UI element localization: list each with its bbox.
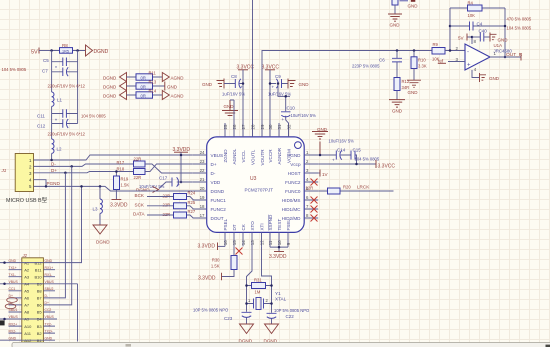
wire pin13 xtal left column	[247, 242, 253, 312]
svg-text:GND: GND	[202, 82, 213, 87]
svg-text:R10: R10	[418, 58, 426, 63]
pin names top U3	[223, 147, 292, 165]
wire vertical D+ to J2 row6	[43, 173, 65, 298]
wire VOUTR vertical + audio line to op-amp	[262, 51, 432, 138]
svg-text:C8: C8	[231, 74, 237, 79]
pin names bottom U3	[223, 214, 291, 231]
ground DGND port row2	[103, 82, 127, 91]
svg-text:D-: D-	[45, 294, 49, 298]
wire crossover D+/D-	[145, 164, 193, 173]
ground GND earth under R10	[407, 80, 421, 95]
svg-text:DGND: DGND	[94, 49, 109, 55]
op-amp U1A JRC4580	[456, 39, 513, 72]
ground GND antenna (C40)	[490, 33, 508, 43]
power 5V port op-amp	[458, 34, 473, 45]
resistor R11 (0R)	[136, 71, 157, 81]
svg-text:10: 10	[277, 240, 282, 245]
svg-text:L3: L3	[93, 207, 99, 212]
wire J1 pin1 VBUS to pin24	[34, 155, 193, 160]
capacitor C15	[351, 148, 361, 160]
svg-text:12: 12	[260, 240, 265, 245]
svg-text:+: +	[282, 117, 285, 122]
svg-text:XTAL: XTAL	[275, 297, 287, 302]
pin numbers top U3	[223, 124, 291, 129]
ground DGND label at C17	[136, 187, 159, 193]
svg-text:R14: R14	[149, 89, 157, 94]
capacitor C5	[43, 58, 78, 67]
svg-text:R20: R20	[343, 185, 351, 190]
svg-text:HOST: HOST	[288, 171, 301, 176]
inductor L1	[52, 92, 63, 108]
node DATA row	[133, 212, 193, 219]
capacitor C9 (1uF polarized)	[270, 74, 288, 90]
svg-text:RX2-: RX2-	[9, 329, 17, 333]
wire left rail mid	[51, 108, 53, 139]
wire row2	[127, 85, 165, 87]
svg-text:470 5% 0805: 470 5% 0805	[507, 17, 532, 22]
resistor R14 (0R)	[136, 89, 157, 99]
svg-text:SSPND: SSPND	[268, 214, 273, 231]
svg-text:D+: D+	[45, 301, 49, 305]
svg-text:C40: C40	[479, 29, 488, 34]
svg-text:1uF/16V 5%: 1uF/16V 5%	[222, 92, 245, 97]
svg-text:R18: R18	[117, 167, 125, 172]
svg-text:RX2+: RX2+	[9, 322, 18, 326]
svg-text:31: 31	[277, 124, 282, 129]
no-connect X pin14	[236, 248, 243, 255]
svg-text:10uF/16V 5%: 10uF/16V 5%	[291, 113, 317, 118]
svg-text:GND: GND	[408, 90, 419, 95]
svg-text:B8: B8	[37, 289, 43, 294]
resistor R25	[174, 200, 196, 209]
wire J2 left stubs	[0, 263, 57, 341]
svg-text:C15: C15	[353, 148, 362, 153]
svg-text:CK: CK	[241, 223, 246, 230]
svg-text:30: 30	[268, 124, 273, 129]
pin names right U3	[282, 153, 302, 221]
svg-text:32: 32	[286, 124, 291, 129]
svg-text:HID2/MD: HID2/MD	[282, 216, 302, 221]
svg-text:LRCK: LRCK	[357, 185, 370, 190]
svg-text:OUT_R: OUT_R	[506, 52, 523, 58]
svg-text:-: -	[467, 50, 469, 56]
wire row3	[127, 94, 163, 96]
svg-text:+: +	[332, 158, 335, 163]
svg-text:GND: GND	[224, 104, 235, 109]
svg-text:TX2+: TX2+	[45, 329, 53, 333]
resistor R10	[411, 49, 427, 80]
power 3.3VCC port 2	[262, 65, 280, 138]
power 3.3VDD port (VBUS rail)	[173, 147, 191, 183]
node ellipse marker row7	[5, 304, 16, 309]
svg-text:SCK: SCK	[135, 202, 145, 207]
svg-text:D-: D-	[211, 171, 216, 176]
node SCK row	[135, 202, 194, 209]
svg-text:18: 18	[200, 204, 205, 209]
svg-text:3.3K: 3.3K	[418, 64, 427, 69]
svg-text:10K: 10K	[468, 13, 476, 18]
svg-text:D+: D+	[211, 162, 217, 167]
svg-text:SBU2: SBU2	[45, 287, 54, 291]
svg-text:HID0/MS: HID0/MS	[282, 198, 301, 203]
svg-text:5V: 5V	[458, 36, 465, 41]
svg-text:R27: R27	[188, 209, 196, 214]
resistor R30	[211, 246, 237, 276]
svg-text:GND: GND	[489, 76, 500, 81]
wire VCOM C10 link	[278, 84, 290, 138]
no-connect X pin6	[311, 197, 318, 204]
svg-text:C6: C6	[379, 58, 385, 63]
power 3.3VDD port (R19)	[110, 200, 128, 209]
svg-text:B10: B10	[34, 274, 42, 279]
svg-text:VBUS: VBUS	[45, 280, 55, 284]
ground DGND (top-left, right-pointing)	[86, 45, 109, 56]
svg-text:25: 25	[223, 124, 228, 129]
svg-text:GND: GND	[9, 259, 17, 263]
capacitor C10	[281, 106, 295, 123]
svg-text:C10: C10	[287, 106, 296, 111]
wire right DGND rail vertical	[77, 51, 79, 124]
svg-text:VOUTR: VOUTR	[260, 149, 265, 166]
svg-text:3.3VCC: 3.3VCC	[378, 163, 396, 169]
svg-text:GND: GND	[392, 109, 403, 114]
svg-text:D-: D-	[9, 301, 13, 305]
svg-text:VCCR: VCCR	[268, 149, 273, 163]
capacitor C23	[224, 312, 252, 324]
resistor R9	[432, 42, 465, 62]
svg-text:+: +	[272, 85, 275, 90]
node ref label	[438, 58, 465, 63]
svg-text:15: 15	[232, 240, 237, 245]
resistor R13 (0R)	[136, 80, 157, 90]
svg-text:U3: U3	[250, 176, 257, 182]
capacitor C8 (1uF polarized)	[224, 74, 244, 90]
ground GND antenna (op-amp pin4)	[472, 70, 500, 82]
svg-text:*: *	[55, 66, 57, 72]
inductor L3	[93, 185, 103, 225]
svg-text:11: 11	[268, 240, 273, 245]
svg-text:GND: GND	[390, 23, 401, 28]
pin stubs left U3	[193, 155, 207, 218]
svg-text:1.5K: 1.5K	[121, 183, 130, 188]
svg-text:AGND: AGND	[171, 93, 185, 98]
capacitor C11	[37, 109, 78, 118]
node 5V port	[31, 48, 52, 56]
bottom window bar	[0, 342, 550, 347]
wire VOUTL vertical (pin 28 up off-sheet)	[252, 0, 254, 137]
svg-text:1uF/16V 5%: 1uF/16V 5%	[268, 92, 291, 97]
svg-text:C7: C7	[42, 69, 48, 74]
svg-text:22: 22	[200, 168, 205, 173]
capacitor C17	[159, 176, 193, 189]
svg-text:VBUS: VBUS	[45, 315, 55, 319]
svg-text:104 5% 0805: 104 5% 0805	[2, 67, 27, 72]
svg-text:MICRO USB B型: MICRO USB B型	[6, 196, 48, 204]
svg-text:10P 5% 0805 NPO: 10P 5% 0805 NPO	[193, 308, 229, 313]
svg-text:DGND: DGND	[211, 189, 225, 194]
wire J1 pin4 join	[34, 180, 47, 187]
ground DGND triangle under C22	[264, 324, 279, 344]
svg-text:FUNC0: FUNC0	[285, 189, 301, 194]
svg-text:27: 27	[241, 124, 246, 129]
svg-text:TX1+: TX1+	[9, 266, 17, 270]
svg-text:ZGND: ZGND	[223, 149, 228, 163]
svg-text:22R: 22R	[163, 203, 171, 208]
svg-text:R13: R13	[149, 80, 157, 85]
ground DGND port row3	[103, 91, 127, 100]
svg-text:TX1-: TX1-	[9, 273, 16, 277]
svg-text:C23: C23	[224, 316, 233, 321]
pin numbers bottom U3	[223, 240, 291, 245]
svg-text:DGND: DGND	[136, 188, 150, 193]
svg-text:PSEL: PSEL	[223, 218, 228, 230]
wire pin1 PGND row	[318, 155, 356, 164]
svg-text:R8: R8	[62, 43, 68, 48]
svg-text:DGND: DGND	[96, 240, 110, 245]
connector J1 MICRO USB	[1, 154, 48, 205]
svg-text:CC2: CC2	[45, 308, 52, 312]
node OUT_R port	[506, 52, 523, 61]
svg-text:+: +	[467, 63, 471, 69]
ground DGND triangle under L3	[93, 225, 110, 245]
wire row1	[127, 76, 163, 78]
node junction dots 5V row	[50, 49, 53, 52]
svg-text:C5: C5	[43, 58, 49, 63]
svg-text:104 5% 0805: 104 5% 0805	[81, 113, 106, 118]
svg-text:+: +	[178, 183, 181, 188]
svg-text:R25: R25	[188, 200, 196, 205]
svg-text:3.3VDD: 3.3VDD	[269, 254, 287, 260]
svg-text:C14: C14	[337, 148, 346, 153]
svg-text:VBUS: VBUS	[9, 315, 19, 319]
svg-text:0R: 0R	[141, 75, 146, 80]
svg-text:B6: B6	[37, 303, 43, 308]
svg-text:AGNDL: AGNDL	[232, 148, 237, 164]
svg-text:HID1/MC: HID1/MC	[282, 207, 302, 212]
svg-text:R24: R24	[188, 191, 196, 196]
svg-text:R11: R11	[149, 71, 157, 76]
capacitor C7 (polarized)	[42, 66, 78, 76]
svg-text:Y1: Y1	[275, 291, 281, 296]
svg-text:Vccp: Vccp	[290, 162, 301, 167]
resistor R12	[394, 78, 410, 100]
ground GND antenna left of C8	[202, 79, 224, 89]
svg-text:GND: GND	[45, 259, 53, 263]
resistor R8	[60, 43, 73, 53]
svg-text:A11: A11	[24, 331, 32, 336]
wire pin12 xtal right column	[262, 246, 272, 312]
capacitor C6	[352, 49, 402, 77]
svg-text:GND: GND	[408, 4, 419, 9]
pin numbers right U3	[306, 150, 309, 218]
resistor R17	[117, 157, 146, 167]
svg-text:A6: A6	[24, 296, 30, 301]
svg-text:B11: B11	[35, 267, 43, 272]
svg-text:D+: D+	[51, 168, 57, 173]
node black tick left edge	[0, 320, 5, 325]
no-connect X pin8	[311, 215, 318, 222]
svg-text:R31: R31	[254, 278, 262, 283]
svg-text:A2: A2	[24, 267, 30, 272]
pin stubs right U3	[304, 155, 318, 218]
svg-text:A3: A3	[24, 274, 30, 279]
svg-text:PGND: PGND	[47, 181, 61, 186]
svg-text:R19: R19	[121, 177, 129, 182]
svg-text:R17: R17	[117, 160, 125, 165]
ground GND earth below (pin25/26)	[222, 100, 238, 137]
ground AGND port row3	[162, 91, 184, 100]
svg-text:AGND: AGND	[171, 75, 185, 80]
svg-text:3.3VDD: 3.3VDD	[198, 276, 216, 282]
svg-text:PCM2707PJT: PCM2707PJT	[245, 188, 274, 193]
ground GND earth top	[388, 14, 402, 28]
wire feedback right vertical	[504, 8, 506, 57]
capacitor C22	[267, 313, 295, 324]
svg-text:1M: 1M	[255, 290, 261, 295]
svg-text:24: 24	[200, 150, 205, 155]
svg-text:DATA: DATA	[133, 212, 146, 217]
resistor R18	[117, 167, 146, 181]
svg-text:1.5K: 1.5K	[211, 264, 220, 269]
resistor R24	[174, 191, 196, 200]
crystal Y1 XTAL	[245, 291, 286, 310]
svg-text:J2: J2	[22, 253, 28, 258]
svg-text:1V: 1V	[322, 172, 329, 177]
svg-text:A7: A7	[24, 303, 30, 308]
ground GND antenna right of C9	[288, 79, 309, 89]
resistor R4 feedback	[450, 1, 505, 18]
svg-text:A5: A5	[24, 289, 30, 294]
capacitor C4 feedback	[450, 22, 505, 31]
no-connect X pin7	[311, 206, 318, 213]
svg-text:22R: 22R	[306, 186, 314, 191]
svg-text:GND: GND	[45, 336, 53, 340]
capacitor C12 (polarized)	[37, 118, 78, 128]
ground DGND triangle under C23	[239, 324, 254, 344]
wire J1 pin3 D+	[34, 172, 134, 173]
svg-text:220uF/16V 5% 6*12: 220uF/16V 5% 6*12	[48, 84, 86, 89]
wire feedback left vertical	[449, 8, 451, 51]
svg-text:13: 13	[250, 240, 255, 245]
svg-text:U1A: U1A	[494, 43, 503, 48]
capacitor C14	[332, 148, 346, 163]
svg-text:VBUS: VBUS	[211, 153, 224, 158]
ground AGND port row1	[162, 73, 184, 82]
svg-text:17: 17	[200, 213, 205, 218]
svg-text:22R: 22R	[134, 175, 142, 180]
svg-text:28: 28	[250, 124, 255, 129]
svg-text:C9: C9	[275, 74, 281, 79]
svg-text:L1: L1	[57, 98, 63, 103]
wire DGND net J1 pin5 to pin20	[34, 186, 193, 191]
wire vertical PGND to J2 row1	[43, 186, 81, 262]
node 1V label	[320, 170, 329, 178]
svg-text:GND: GND	[167, 85, 178, 90]
svg-text:20: 20	[200, 186, 205, 191]
power 3.3VCC port 1	[237, 65, 255, 138]
svg-text:B7: B7	[37, 296, 43, 301]
svg-text:0R: 0R	[141, 84, 146, 89]
power 3.3VDD port (pins 11-10-9)	[269, 252, 287, 261]
svg-text:0R: 0R	[141, 93, 146, 98]
svg-text:3.3VDD: 3.3VDD	[198, 244, 216, 250]
svg-text:B5: B5	[37, 310, 43, 315]
svg-text:FSEL: FSEL	[286, 219, 291, 231]
svg-text:A8: A8	[24, 310, 30, 315]
svg-text:22R: 22R	[163, 212, 171, 217]
ground DGND port row1	[103, 73, 127, 82]
power 3.3VCC port (pin2)	[376, 160, 395, 169]
resistor top edge (cut off)	[392, 0, 398, 14]
wire 5V rail top	[52, 50, 86, 52]
pin numbers left U3	[200, 150, 205, 218]
svg-text:16: 16	[223, 240, 228, 245]
pin stubs bottom U3	[225, 232, 288, 247]
ground GND bar port row2	[165, 82, 178, 91]
svg-text:XTO: XTO	[250, 221, 255, 231]
wire vertical D- to J2 row7	[43, 166, 71, 305]
ground GND earth under R12	[389, 100, 405, 114]
svg-text:FUNC1: FUNC1	[211, 198, 227, 203]
svg-text:DGND: DGND	[103, 85, 117, 90]
svg-text:220uF/16V 5% 6*12: 220uF/16V 5% 6*12	[48, 132, 86, 137]
svg-text:GND: GND	[9, 336, 17, 340]
wire J2 right stubs	[43, 270, 57, 341]
svg-text:FUNC2: FUNC2	[285, 180, 301, 185]
wire op-amp output	[490, 56, 521, 58]
svg-text:VBUS: VBUS	[9, 280, 19, 284]
svg-text:RX1-: RX1-	[45, 273, 53, 277]
svg-text:R9: R9	[433, 42, 439, 47]
svg-text:5V: 5V	[31, 50, 38, 56]
node J2 left net labels	[9, 259, 19, 341]
resistor R19	[114, 170, 130, 199]
svg-text:GND: GND	[498, 38, 509, 43]
svg-text:FUNC2: FUNC2	[211, 207, 227, 212]
svg-text:DOUT: DOUT	[211, 216, 224, 221]
wire vertical J2 row4 down	[43, 284, 77, 342]
svg-text:22R: 22R	[163, 193, 171, 198]
svg-text:VDD: VDD	[211, 180, 221, 185]
wire J1 pin2 D-	[34, 164, 134, 166]
svg-text:BCK: BCK	[135, 193, 145, 198]
power 3.3VDD port (R30)	[198, 273, 222, 282]
svg-text:GND: GND	[299, 82, 310, 87]
svg-text:CC1: CC1	[9, 287, 16, 291]
wire pins 11 10 9 tie	[270, 247, 288, 251]
svg-text:26: 26	[232, 124, 237, 129]
svg-text:XTI: XTI	[260, 223, 265, 230]
svg-text:14: 14	[241, 240, 246, 245]
svg-text:TX2-: TX2-	[45, 322, 52, 326]
resistor R20	[306, 185, 371, 195]
wire pin3 HOST	[318, 172, 320, 174]
svg-text:10uF/16V 5%: 10uF/16V 5%	[329, 139, 355, 144]
svg-text:C22: C22	[286, 314, 295, 319]
wire pin2 Vccp row	[318, 163, 376, 165]
svg-text:DGND: DGND	[103, 94, 117, 99]
svg-text:19: 19	[200, 195, 205, 200]
svg-text:AGNDR: AGNDR	[277, 147, 282, 164]
svg-text:3.3VDD: 3.3VDD	[110, 203, 128, 209]
svg-text:C12: C12	[37, 123, 46, 128]
capacitor C40	[472, 29, 490, 42]
node GND label top right	[400, 0, 419, 9]
svg-text:VOUTL: VOUTL	[251, 149, 256, 165]
svg-text:104 5% 0805: 104 5% 0805	[507, 26, 532, 31]
svg-text:L2: L2	[57, 147, 63, 152]
svg-text:10P 5% 0805 NPO: 10P 5% 0805 NPO	[274, 308, 310, 313]
